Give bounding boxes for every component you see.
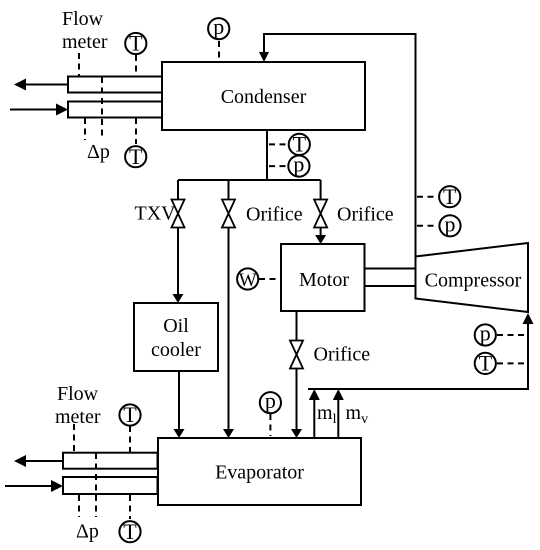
arrowhead: m_l up: [309, 389, 320, 400]
sensor W: motor power: [237, 268, 258, 289]
svg-text:p: p: [213, 14, 224, 39]
dashed lead: bottom flowmeter T2: [129, 495, 131, 519]
wire: bottom flowmeter outlet line: [22, 460, 63, 462]
wire: top flowmeter inlet line: [10, 109, 60, 111]
top flowmeter upper tube: [68, 77, 162, 93]
svg-text:p: p: [265, 388, 276, 413]
svg-text:T: T: [479, 351, 493, 376]
svg-text:Orifice: Orifice: [337, 204, 394, 226]
valve TXV: [172, 200, 185, 214]
svg-text:Δp: Δp: [76, 521, 99, 543]
svg-text:cooler: cooler: [151, 339, 201, 361]
arrowhead: orifice1 into evaporator: [223, 429, 234, 438]
dashed lead: suction T: [497, 362, 526, 364]
wire: motor to orifice3 to evaporator: [296, 311, 298, 432]
valve orifice2: [314, 200, 327, 214]
arrowhead: into compressor suction: [523, 313, 534, 324]
sensor T: bottom flowmeter upper: [119, 404, 140, 425]
valve orifice1: [222, 200, 235, 214]
svg-text:T: T: [129, 31, 143, 56]
svg-text:T: T: [129, 144, 143, 169]
svg-text:Motor: Motor: [299, 269, 349, 291]
dashed lead: top flowmeter dp left: [84, 118, 86, 140]
wire: orifice2 branch to motor: [320, 180, 322, 238]
dashed lead: discharge T: [417, 196, 438, 198]
sensor T: discharge line: [439, 186, 460, 207]
sensor T: condenser outlet: [289, 134, 310, 155]
wire: top flowmeter outlet line: [22, 84, 68, 86]
dashed lead: top flowmeter dp across bars: [101, 77, 103, 140]
wire: m_l riser: [313, 395, 315, 438]
bottom flowmeter upper tube: [63, 453, 158, 469]
dashed lead: bottom flowmeter T1: [129, 426, 131, 452]
arrowhead: into condenser top: [259, 52, 269, 62]
svg-text:T: T: [123, 402, 137, 427]
dashed lead: discharge p: [417, 225, 438, 227]
wire: orifice1 branch to evaporator: [228, 180, 230, 432]
sensor T: top flowmeter lower: [125, 146, 146, 167]
svg-text:Orifice: Orifice: [246, 204, 303, 226]
dashed lead: top flowmeter label: [78, 53, 80, 76]
wire: motor-compressor shaft upper: [365, 268, 416, 270]
valves: [172, 200, 328, 369]
wire: evaporator suction line to compressor: [308, 320, 528, 389]
condenser box: [162, 62, 365, 130]
arrowhead: orifice3 into evaporator: [291, 429, 302, 438]
valve orifice3: [290, 341, 303, 355]
dashed instrument leads: [74, 41, 526, 519]
wire: compressor discharge to condenser top: [264, 34, 416, 256]
bottom flowmeter lower tube: [63, 477, 158, 494]
sensor p: evaporator: [260, 392, 281, 413]
svg-text:Flow: Flow: [57, 383, 99, 405]
wire: bottom flowmeter inlet line: [5, 485, 55, 487]
instrument circles: [119, 18, 496, 542]
dashed lead: top flowmeter T2: [135, 118, 137, 144]
instrument letters: [123, 14, 492, 544]
compressor body: [416, 243, 529, 312]
svg-text:Evaporator: Evaporator: [215, 462, 304, 484]
arrowheads (filled): [14, 52, 534, 492]
svg-text:TXV: TXV: [135, 203, 177, 225]
top flowmeter lower tube: [68, 102, 162, 118]
arrowhead: bottom flowmeter out (left): [14, 455, 26, 467]
dashed lead: W to motor: [259, 278, 280, 280]
wire: TXV branch down to oil cooler: [177, 180, 179, 296]
svg-text:p: p: [293, 152, 304, 177]
wire: m_v riser: [337, 395, 339, 438]
sensor T: suction line: [475, 353, 496, 374]
sensor p: discharge line: [439, 215, 460, 236]
svg-text:T: T: [443, 184, 457, 209]
svg-text:Oil: Oil: [163, 315, 189, 337]
wire: oil cooler outlet to evaporator: [178, 371, 180, 432]
wire: condenser outlet down: [266, 130, 268, 180]
svg-text:Compressor: Compressor: [425, 270, 522, 292]
arrowhead: orifice2 into motor: [315, 235, 326, 244]
wire: distribution header: [178, 179, 321, 181]
arrowhead: top flowmeter in (right): [56, 104, 68, 116]
svg-text:Flow: Flow: [62, 8, 104, 30]
dashed lead: top flowmeter T1: [135, 55, 137, 76]
dashed lead: evaporator p: [269, 414, 271, 436]
svg-text:Orifice: Orifice: [314, 344, 371, 366]
dashed lead: suction p: [497, 334, 526, 336]
oil cooler box: [134, 303, 218, 371]
dashed lead: condenser outlet T: [269, 143, 287, 145]
sensor T: top flowmeter upper: [125, 33, 146, 54]
sensor T: bottom flowmeter lower: [119, 521, 140, 542]
svg-text:p: p: [480, 321, 491, 346]
svg-text:p: p: [445, 211, 456, 236]
dashed lead: bottom flowmeter dp left: [78, 495, 80, 517]
sensor p: suction line: [475, 324, 496, 345]
dashed lead: bottom flowmeter label: [73, 424, 75, 452]
svg-text:Condenser: Condenser: [221, 86, 307, 108]
arrowhead: into oil cooler: [173, 294, 184, 303]
sensor p: condenser outlet: [288, 156, 309, 177]
svg-text:W: W: [239, 270, 257, 291]
svg-text:T: T: [123, 519, 137, 544]
dashed dp leads drawn across the tubes: [96, 77, 102, 517]
evaporator box: [158, 438, 361, 505]
svg-text:meter: meter: [55, 406, 101, 428]
arrowhead: bottom flowmeter in (right): [51, 480, 63, 492]
dashed lead: condenser p top: [218, 41, 220, 61]
arrowhead: top flowmeter out (left): [14, 79, 26, 91]
svg-text:Δp: Δp: [87, 141, 110, 163]
svg-text:meter: meter: [62, 31, 108, 53]
motor box: [281, 244, 365, 311]
sensor p: condenser top: [208, 18, 229, 39]
arrowhead: oil cooler outlet into evaporator: [174, 429, 185, 438]
dashed lead: condenser outlet p: [269, 165, 287, 167]
dashed lead: bottom flowmeter dp across bars: [95, 453, 97, 517]
arrowhead: m_v up: [333, 389, 344, 400]
wire: motor-compressor shaft lower: [365, 285, 416, 287]
